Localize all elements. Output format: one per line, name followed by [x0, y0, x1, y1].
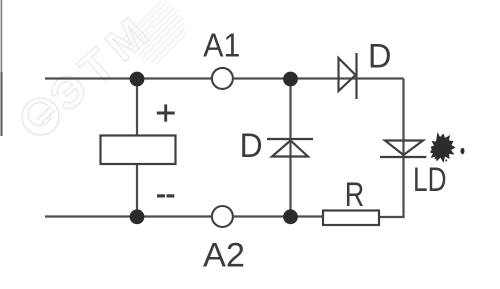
ink blob satellite marks	[431, 150, 448, 162]
svg-text:D: D	[368, 38, 392, 76]
resistor R	[323, 211, 379, 226]
ink blob small dot	[461, 148, 465, 154]
watermark logo circle	[22, 98, 59, 135]
terminal A1	[212, 68, 233, 89]
wire: bottom horizontal left segment	[45, 215, 211, 217]
svg-text:A1: A1	[203, 28, 240, 65]
watermark text ЭТМ	[40, 3, 164, 122]
wire: top horizontal left segment	[45, 77, 211, 79]
junction bottom-left	[130, 209, 145, 224]
svg-text:A2: A2	[203, 237, 245, 275]
junction bottom-middle	[283, 209, 298, 224]
ink blob stamp	[430, 132, 456, 163]
svg-text:ЭТМ: ЭТМ	[40, 3, 164, 122]
plus sign	[157, 104, 175, 121]
left margin bar	[1, 0, 3, 72]
wire: coil vertical top	[136, 79, 138, 136]
watermark hatch block	[121, 0, 193, 70]
wire: coil vertical bottom	[136, 164, 138, 217]
wire: right vertical	[402, 79, 404, 218]
relay coil K1	[101, 136, 176, 165]
terminal A2	[212, 206, 233, 227]
diode D1 top (horizontal)	[339, 53, 357, 99]
svg-text:D: D	[240, 127, 263, 165]
svg-text:LD: LD	[413, 161, 447, 199]
wire: top horizontal right segment	[234, 77, 404, 79]
diode D2 middle (vertical)	[267, 139, 313, 157]
junction top-left	[130, 72, 145, 87]
LED LD	[380, 141, 426, 158]
wire: bottom right segment resistor to corner	[379, 216, 405, 218]
svg-text:R: R	[345, 176, 365, 214]
wire: middle diode vertical	[289, 79, 291, 217]
junction top-middle	[283, 72, 298, 87]
wire: bottom horizontal mid segment	[234, 215, 323, 217]
minus dashes	[157, 194, 174, 197]
